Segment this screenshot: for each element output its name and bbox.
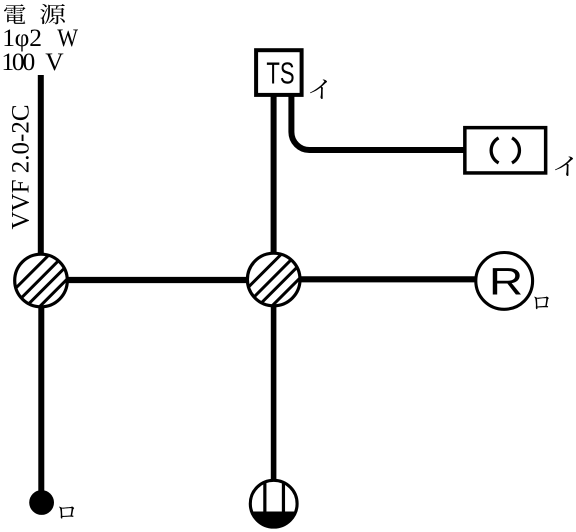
label イ for timer switch	[310, 79, 327, 99]
lamp/ceiling device (circle with bars and filled bottom)	[248, 478, 299, 529]
receptacle/device R	[476, 253, 533, 310]
svg-text:100V: 100V	[1, 47, 64, 76]
wire: timer switch TS down to JB2	[271, 94, 277, 255]
wire: JB2 down to lamp	[271, 305, 277, 512]
label イ for appliance	[555, 156, 573, 176]
wire: TS to appliance box (curved)	[291, 94, 464, 150]
power source label kanji 電	[4, 4, 26, 24]
wire: JB1 down to switch	[38, 306, 44, 496]
wire: power source down to junction box JB1	[38, 75, 44, 256]
svg-text:R: R	[489, 261, 523, 303]
timer switch TS	[256, 50, 302, 95]
power source label kanji 源	[40, 4, 65, 24]
junction box JB2 (center, circle with hatching)	[246, 252, 304, 310]
wire: JB2 to receptacle R	[299, 276, 477, 282]
wire: JB1 to JB2 horizontal	[66, 277, 248, 283]
svg-text:VVF 2.0-2C: VVF 2.0-2C	[7, 104, 34, 229]
label ロ for switch	[59, 506, 74, 518]
junction box JB1 (left, circle with hatching)	[14, 253, 72, 311]
switch (filled dot)	[29, 490, 54, 515]
svg-text:TS: TS	[266, 56, 294, 91]
appliance box with ( ) symbol	[465, 128, 546, 173]
label ロ for R	[534, 296, 549, 309]
